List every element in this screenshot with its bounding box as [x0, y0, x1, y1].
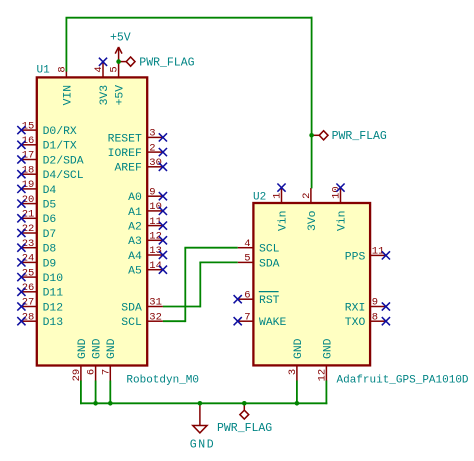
svg-text:5: 5: [109, 66, 121, 72]
svg-text:24: 24: [22, 253, 35, 265]
wire: ground bus left drop from U1 pin 29: [80, 381, 82, 405]
U1 pin 28 (D13): [21, 311, 63, 329]
svg-text:31: 31: [149, 297, 162, 309]
no-connect X on U2 pin 9: [382, 302, 390, 310]
U1 pin 20 (D5): [21, 194, 56, 212]
svg-text:D2/SDA: D2/SDA: [43, 155, 84, 167]
svg-text:7: 7: [100, 369, 112, 375]
U2 pin 9 (RXI): [345, 297, 386, 315]
svg-text:IOREF: IOREF: [108, 148, 142, 160]
U1 pin 12 (A3): [128, 231, 163, 249]
U2 pin 1 (Vin): [272, 188, 290, 231]
U1 pin 14 (A5): [128, 260, 163, 278]
svg-text:3V3: 3V3: [99, 85, 111, 106]
svg-text:SDA: SDA: [259, 258, 280, 270]
wire: U1 SDA pin 31 horizontal: [163, 306, 200, 308]
U1 pin 21 (D6): [21, 209, 56, 227]
svg-text:D12: D12: [43, 302, 64, 314]
svg-text:22: 22: [22, 223, 35, 235]
svg-text:U1: U1: [37, 65, 51, 77]
wire: top horizontal run from VIN to 3Vo: [66, 17, 313, 19]
svg-text:TXO: TXO: [345, 317, 366, 329]
svg-text:17: 17: [22, 150, 35, 162]
svg-text:28: 28: [22, 311, 35, 323]
U1 pin 26 (D11): [21, 282, 63, 300]
no-connect X on U1 pin 22: [17, 229, 25, 237]
svg-text:Adafruit_GPS_PA1010D: Adafruit_GPS_PA1010D: [337, 375, 469, 387]
no-connect X on U1 pin 13: [159, 251, 167, 259]
svg-text:2: 2: [301, 193, 313, 199]
svg-text:D11: D11: [43, 288, 64, 300]
IC U1 body (Robotdyn_M0 microcontroller board): [37, 77, 147, 365]
no-connect X on U2 pin 7: [234, 317, 242, 325]
svg-text:D13: D13: [43, 317, 64, 329]
svg-text:RST: RST: [259, 295, 280, 307]
U1 pin 9 (A0): [128, 186, 163, 204]
svg-text:4: 4: [244, 238, 250, 250]
junction at PWR_FLAG / ground bus: [242, 401, 247, 406]
wire: SDA vertical riser x=200: [199, 262, 201, 307]
svg-text:7: 7: [244, 311, 250, 323]
no-connect X on U2 pin 1: [277, 184, 285, 192]
no-connect X on U1 pin 4: [99, 58, 107, 66]
svg-text:3Vo: 3Vo: [307, 210, 319, 231]
U1 pin 27 (D12): [21, 297, 63, 315]
svg-text:+5V: +5V: [115, 85, 127, 106]
U1 pin 2 (IOREF): [108, 142, 163, 160]
svg-text:D1/TX: D1/TX: [43, 141, 77, 153]
U1 pin 10 (A1): [128, 201, 163, 219]
junction at PWR_FLAG / 3Vo wire: [309, 133, 314, 138]
no-connect X on U1 pin 10: [159, 207, 167, 215]
svg-text:29: 29: [71, 369, 83, 382]
svg-text:VIN: VIN: [62, 85, 74, 106]
no-connect X on U1 pin 21: [17, 214, 25, 222]
no-connect X on U1 pin 18: [17, 170, 25, 178]
svg-text:Vin: Vin: [336, 211, 348, 232]
svg-text:SCL: SCL: [121, 317, 142, 329]
U2 pin 11 (PPS): [345, 246, 386, 264]
svg-text:GND: GND: [322, 338, 334, 359]
svg-text:4: 4: [93, 66, 105, 72]
wire: U1 VIN pin 8 riser: [65, 18, 67, 72]
U2 pin 12 (GND): [316, 338, 334, 381]
svg-text:6: 6: [86, 369, 98, 375]
junction at GND symbol / ground bus: [198, 401, 203, 406]
U1 pin 13 (A4): [128, 245, 163, 263]
no-connect X on U1 pin 11: [159, 222, 167, 230]
svg-text:D7: D7: [43, 229, 57, 241]
U1 pin 11 (A2): [128, 216, 163, 234]
no-connect X on U1 pin 23: [17, 244, 25, 252]
svg-text:23: 23: [22, 238, 35, 250]
no-connect X on U1 pin 24: [17, 258, 25, 266]
svg-text:PWR_FLAG: PWR_FLAG: [139, 57, 194, 70]
wire: SCL vertical riser x=185: [184, 248, 186, 322]
no-connect X on U1 pin 15: [17, 126, 25, 134]
no-connect X on U2 pin 11: [382, 251, 390, 259]
no-connect X on U1 pin 26: [17, 288, 25, 296]
svg-text:5: 5: [244, 253, 250, 265]
svg-text:D0/RX: D0/RX: [43, 126, 77, 138]
U1 pin 32 (SCL): [121, 311, 163, 329]
svg-text:A1: A1: [128, 207, 142, 219]
svg-text:A0: A0: [128, 192, 142, 204]
U2 pin 4 (SCL): [238, 238, 280, 256]
no-connect X on U1 pin 27: [17, 302, 25, 310]
svg-text:18: 18: [22, 164, 35, 176]
ground symbol GND on ground bus: [193, 403, 207, 433]
power flag PWR_FLAG on ground bus (bottom): [240, 403, 249, 419]
svg-text:A4: A4: [128, 251, 142, 263]
U1 pin 17 (D2/SDA): [21, 150, 83, 168]
svg-text:3: 3: [287, 369, 299, 375]
wire: U1 SCL pin 32 horizontal: [163, 320, 185, 322]
svg-text:2: 2: [149, 142, 155, 154]
IC U2 body (Adafruit_GPS_PA1010D module): [253, 203, 370, 365]
no-connect X on U2 pin 6: [234, 295, 242, 303]
svg-text:32: 32: [149, 311, 162, 323]
svg-text:PWR_FLAG: PWR_FLAG: [217, 422, 272, 435]
wire: U2 SDA pin 5 horizontal: [199, 261, 237, 263]
svg-text:3: 3: [149, 128, 155, 140]
wire: ground bus drop from U2 pin 3: [296, 381, 298, 404]
power flag PWR_FLAG on 3Vo wire (middle right): [312, 131, 328, 140]
svg-text:AREF: AREF: [114, 163, 142, 175]
svg-text:8: 8: [372, 311, 378, 323]
U1 pin 4 (3V3): [93, 62, 111, 106]
U2 pin 7 (WAKE): [238, 311, 287, 329]
svg-text:PPS: PPS: [345, 251, 366, 263]
power flag PWR_FLAG at U1 pin 5 (top): [119, 57, 135, 66]
svg-text:GND: GND: [77, 338, 89, 359]
no-connect X on U1 pin 9: [159, 192, 167, 200]
no-connect X on U1 pin 19: [17, 185, 25, 193]
svg-text:Vin: Vin: [277, 211, 289, 232]
wire: U2 SCL pin 4 horizontal: [184, 247, 237, 249]
svg-text:6: 6: [244, 289, 250, 301]
no-connect X on U1 pin 16: [17, 141, 25, 149]
svg-text:D9: D9: [43, 258, 57, 270]
U1 pin 29 (GND): [71, 338, 89, 381]
svg-text:D8: D8: [43, 244, 57, 256]
U1 pin 24 (D9): [21, 253, 56, 271]
U2 pin 10 (Vin): [331, 186, 349, 231]
U1 pin 31 (SDA): [121, 297, 163, 315]
svg-text:21: 21: [22, 209, 35, 221]
no-connect X on U1 pin 12: [159, 236, 167, 244]
U2 pin 2 (3Vo): [301, 188, 319, 231]
svg-text:15: 15: [22, 120, 35, 132]
power symbol +5V (arrow) on U1 pin 5: [115, 47, 122, 62]
no-connect X on U1 pin 3: [159, 133, 167, 141]
svg-text:27: 27: [22, 297, 35, 309]
U1 pin 19 (D4): [21, 179, 56, 197]
svg-text:9: 9: [372, 297, 378, 309]
junction at +5V / U1 pin 5: [116, 59, 121, 64]
no-connect X on U1 pin 20: [17, 200, 25, 208]
U1 pin 15 (D0/RX): [21, 120, 77, 138]
no-connect X on U1 pin 25: [17, 273, 25, 281]
svg-text:GND: GND: [106, 338, 118, 359]
no-connect X on U1 pin 17: [17, 155, 25, 163]
U2 pin 8 (TXO): [345, 311, 386, 329]
svg-text:SDA: SDA: [121, 302, 142, 314]
U1 pin 7 (GND): [100, 338, 118, 381]
no-connect X on U2 pin 8: [382, 317, 390, 325]
svg-text:D6: D6: [43, 214, 57, 226]
svg-text:9: 9: [149, 186, 155, 198]
svg-text:Robotdyn_M0: Robotdyn_M0: [126, 375, 199, 387]
U1 pin 25 (D10): [21, 267, 63, 285]
junction at U2 pin 3 / ground bus: [295, 401, 300, 406]
U1 pin 18 (D4/SCL): [21, 164, 83, 182]
no-connect X on U1 pin 28: [17, 317, 25, 325]
svg-text:SCL: SCL: [259, 244, 280, 256]
svg-text:D5: D5: [43, 200, 57, 212]
no-connect X on U1 pin 2: [159, 148, 167, 156]
no-connect X on U1 pin 30: [159, 163, 167, 171]
no-connect X on U2 pin 10: [336, 184, 344, 192]
svg-text:RXI: RXI: [345, 302, 366, 314]
U1 pin 5 (+5V): [109, 62, 127, 106]
svg-text:+5V: +5V: [110, 31, 131, 44]
U2 pin 5 (SDA): [238, 253, 280, 271]
wire: ground bus drop from U1 pin 7: [109, 381, 111, 404]
svg-text:16: 16: [22, 135, 35, 147]
U1 pin 8 (VIN): [56, 66, 74, 105]
svg-text:GND: GND: [92, 338, 104, 359]
svg-text:D4: D4: [43, 185, 57, 197]
svg-text:19: 19: [22, 179, 35, 191]
wire: bottom ground bus horizontal: [80, 402, 327, 404]
svg-text:1: 1: [272, 193, 284, 199]
svg-text:WAKE: WAKE: [259, 317, 287, 329]
svg-text:A2: A2: [128, 222, 142, 234]
svg-text:U2: U2: [253, 191, 266, 203]
U1 pin 6 (GND): [86, 338, 104, 381]
svg-text:A5: A5: [128, 266, 142, 278]
wire: right vertical drop to U2 3Vo pin 2: [311, 17, 313, 189]
junction at U1 pin 6 / ground bus: [93, 401, 98, 406]
junction at U1 pin 7 / ground bus: [108, 401, 113, 406]
svg-text:GND: GND: [190, 438, 216, 451]
svg-text:25: 25: [22, 267, 35, 279]
svg-text:GND: GND: [293, 338, 305, 359]
no-connect X on U1 pin 14: [159, 266, 167, 274]
U2 pin 6 (RST): [238, 289, 280, 307]
U1 pin 22 (D7): [21, 223, 56, 241]
U1 pin 23 (D8): [21, 238, 56, 256]
svg-text:D10: D10: [43, 273, 64, 285]
svg-text:RESET: RESET: [108, 133, 142, 145]
svg-text:12: 12: [316, 369, 328, 382]
wire: ground bus drop from U2 pin 12: [325, 381, 327, 405]
U1 pin 16 (D1/TX): [21, 135, 77, 153]
svg-text:PWR_FLAG: PWR_FLAG: [332, 130, 387, 143]
svg-text:D4/SCL: D4/SCL: [43, 170, 84, 182]
U2 pin 3 (GND): [287, 338, 305, 381]
svg-text:20: 20: [22, 194, 35, 206]
U1 pin 3 (RESET): [108, 128, 163, 146]
wire: ground bus drop from U1 pin 6: [95, 381, 97, 404]
U1 pin 30 (AREF): [114, 157, 162, 175]
svg-text:26: 26: [22, 282, 35, 294]
svg-text:A3: A3: [128, 236, 142, 248]
